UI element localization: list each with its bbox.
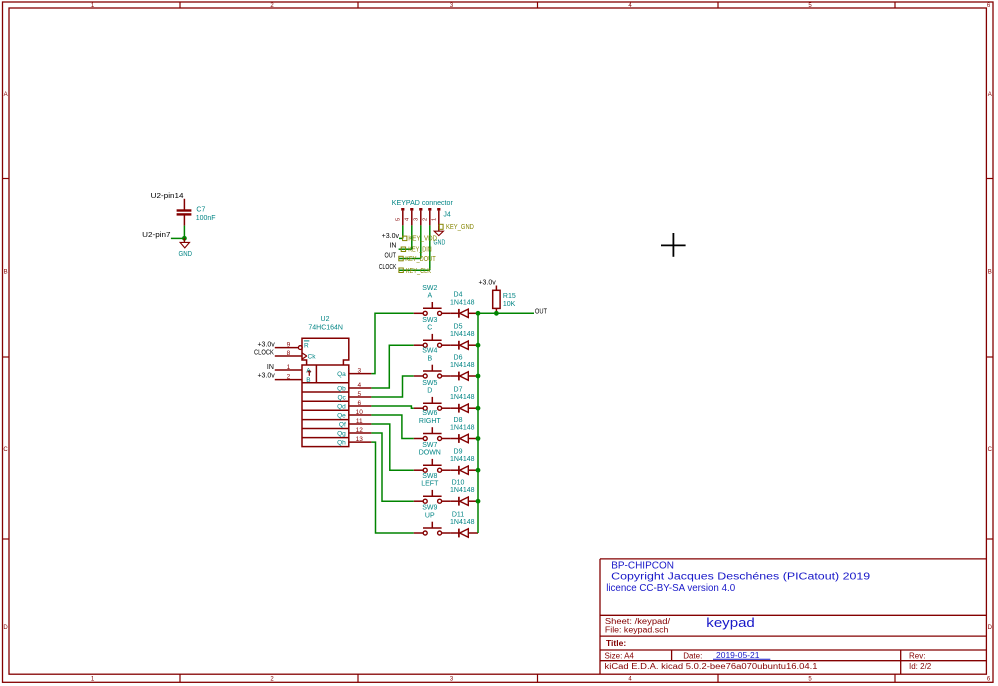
wire Qb to switch row 2 [371, 345, 413, 388]
SW7 reference [422, 442, 437, 449]
svg-text:C: C [988, 447, 993, 453]
svg-text:KEY_DOUT: KEY_DOUT [405, 256, 436, 263]
svg-text:+3.0v: +3.0v [257, 373, 275, 380]
svg-text:Qa: Qa [337, 371, 346, 378]
D6 value 1N4148 [450, 362, 475, 369]
svg-text:BP-CHIPCON: BP-CHIPCON [611, 561, 674, 572]
svg-text:9: 9 [287, 341, 291, 348]
switch SW2 (A) [414, 302, 450, 315]
wire Qh to switch row 8 [371, 442, 413, 533]
title block comment copyright [611, 572, 871, 583]
U2 pin 12 (Qg output) [337, 427, 371, 438]
U2 pin 1 (A input) [275, 364, 311, 374]
svg-text:D8: D8 [454, 417, 463, 424]
wire CLOCK to J4 pin2 [399, 269, 430, 271]
junction at C7 ground node [182, 236, 187, 241]
svg-text:1: 1 [432, 218, 438, 221]
D8 reference [454, 417, 463, 424]
svg-text:1N4148: 1N4148 [450, 331, 475, 338]
title block file name [605, 625, 669, 634]
title block date value [713, 650, 770, 660]
svg-text:1N4148: 1N4148 [450, 425, 475, 432]
svg-text:6: 6 [987, 3, 991, 9]
U2 pin 8 (Ck clock) [275, 350, 316, 360]
junction on OUT bus row 5 [476, 436, 481, 441]
svg-text:CLOCK: CLOCK [254, 350, 274, 357]
svg-text:B: B [427, 355, 432, 362]
diode D9 1N4148 [450, 466, 478, 475]
svg-text:A: A [427, 293, 432, 300]
svg-text:3: 3 [357, 368, 361, 375]
U2 pin 10 (Qe output) [337, 409, 371, 420]
SW2 value A [427, 293, 432, 300]
ground GND at J4 [434, 231, 446, 246]
svg-text:11: 11 [356, 418, 363, 425]
svg-text:D10: D10 [452, 480, 465, 487]
wire Qa to switch row 1 [371, 313, 413, 373]
title block rev label [909, 651, 925, 660]
wire Qg to switch row 7 [371, 433, 413, 501]
svg-text:OUT: OUT [385, 253, 397, 260]
title block comment BP-CHIPCON [611, 561, 674, 572]
svg-text:KEY_GND: KEY_GND [446, 224, 474, 231]
switch SW6 (RIGHT) [414, 427, 450, 440]
diode D7 1N4148 [450, 404, 478, 413]
label +3.0v at U2 pin2 [257, 373, 275, 380]
label CLOCK at J4 [379, 264, 397, 271]
wire Qd to switch row 4 [371, 406, 413, 408]
wire U2-pin7 to junction [171, 237, 185, 239]
svg-text:U2-pin14: U2-pin14 [151, 193, 184, 200]
wire Qf to switch row 6 [371, 424, 413, 470]
D10 reference [452, 480, 465, 487]
svg-text:4: 4 [357, 382, 361, 389]
wire J4 pin4 to KEY_DIN node [411, 225, 413, 249]
svg-text:SW7: SW7 [422, 442, 437, 449]
switch SW4 (B) [414, 365, 450, 378]
junction on OUT bus row 2 [476, 343, 481, 348]
resistor R15 [493, 286, 500, 314]
svg-text:1: 1 [287, 364, 291, 371]
U2 pin 9 (R reset) [275, 341, 310, 350]
R15 value 10K [503, 301, 516, 308]
SW3 reference [422, 317, 437, 324]
connector J4 pin 4 [405, 208, 412, 225]
capacitor C7 [177, 211, 192, 226]
svg-text:Qd: Qd [337, 404, 346, 411]
U2 value 74HC164N [308, 325, 343, 332]
U2 pin 6 (Qd output) [337, 400, 371, 411]
SW3 value C [427, 325, 432, 332]
svg-text:D7: D7 [454, 387, 463, 394]
title block size [605, 651, 635, 660]
SW8 value LEFT [421, 481, 439, 488]
svg-text:C7: C7 [196, 206, 205, 213]
junction at R15 bottom [494, 311, 499, 316]
svg-text:Qe: Qe [337, 413, 346, 420]
svg-text:Qb: Qb [337, 386, 346, 393]
svg-text:KEY_DIN: KEY_DIN [408, 247, 431, 254]
svg-text:keypad: keypad [706, 615, 755, 630]
title block kicad version [605, 662, 819, 671]
label CLOCK at U2 pin8 [254, 350, 274, 357]
D11 value 1N4148 [450, 519, 475, 526]
svg-text:1N4148: 1N4148 [450, 394, 475, 401]
svg-text:74HC164N: 74HC164N [308, 325, 343, 332]
label OUT [535, 309, 548, 316]
svg-text:D: D [3, 625, 8, 631]
shift register U2 74HC164N body [302, 338, 349, 446]
svg-text:A: A [4, 92, 8, 98]
svg-text:B: B [988, 270, 992, 276]
diode D5 1N4148 [450, 341, 478, 350]
svg-text:KEY_CLK: KEY_CLK [406, 268, 431, 275]
connector J4 pin 3 [414, 208, 421, 225]
D8 value 1N4148 [450, 425, 475, 432]
SW6 value RIGHT [419, 418, 442, 425]
svg-text:8: 8 [287, 350, 291, 357]
connector J4 reference [443, 212, 451, 219]
D4 value 1N4148 [450, 299, 475, 306]
junction on OUT bus row 1 [476, 311, 481, 316]
svg-text:Qc: Qc [337, 395, 346, 402]
SW2 reference [422, 285, 437, 292]
svg-text:U2: U2 [321, 316, 330, 323]
svg-text:A: A [988, 92, 992, 98]
svg-text:kiCad E.D.A. kicad 5.0.2-bee7: kiCad E.D.A. kicad 5.0.2-bee76a070ubuntu… [605, 662, 819, 671]
svg-text:licence CC-BY-SA version 4.0: licence CC-BY-SA version 4.0 [606, 583, 735, 594]
svg-text:SW2: SW2 [422, 285, 437, 292]
svg-text:D5: D5 [454, 324, 463, 331]
D6 reference [454, 354, 463, 361]
C7 reference [196, 206, 205, 213]
title block date label [683, 651, 702, 660]
svg-text:SW5: SW5 [422, 380, 437, 387]
svg-text:+3.0v: +3.0v [382, 233, 400, 240]
junction on OUT bus row 6 [476, 468, 481, 473]
svg-text:1N4148: 1N4148 [450, 299, 475, 306]
svg-text:2019-05-21: 2019-05-21 [716, 650, 760, 660]
connector J4 pin 1 [432, 208, 439, 225]
svg-text:A: A [306, 367, 311, 374]
svg-text:D11: D11 [452, 511, 464, 518]
svg-text:1N4148: 1N4148 [450, 456, 475, 463]
diode D8 1N4148 [450, 434, 478, 443]
svg-text:KEY_VDD: KEY_VDD [408, 236, 437, 243]
svg-text:File: keypad.sch: File: keypad.sch [605, 625, 669, 634]
SW7 value DOWN [419, 450, 441, 457]
svg-text:2: 2 [287, 374, 291, 381]
SW5 reference [422, 380, 437, 387]
svg-text:UP: UP [425, 512, 435, 519]
svg-text:SW9: SW9 [422, 505, 437, 512]
title block comment licence [606, 583, 735, 594]
svg-text:LEFT: LEFT [421, 481, 439, 488]
svg-text:SW3: SW3 [422, 317, 437, 324]
diode D11 1N4148 [450, 529, 478, 538]
svg-text:10K: 10K [503, 301, 516, 308]
svg-text:SW4: SW4 [422, 348, 437, 355]
hierarchical label KEY_VDD [403, 236, 437, 243]
D5 reference [454, 324, 463, 331]
D4 reference [454, 292, 463, 299]
svg-text:GND: GND [179, 251, 193, 258]
ground GND at C7 [179, 238, 193, 258]
svg-text:Ck: Ck [308, 353, 317, 360]
wire J4 pin3 to KEY_DOUT node [420, 225, 422, 258]
SW9 reference [422, 505, 437, 512]
wire U2-pin14 to C7 [183, 199, 185, 210]
diode D10 1N4148 [450, 497, 478, 506]
wire Qe to switch row 5 [371, 415, 413, 439]
svg-text:B: B [4, 270, 8, 276]
label +3.0v at U2 pin9 [257, 341, 275, 348]
junction on OUT bus row 7 [476, 499, 481, 504]
label U2-pin14 [151, 193, 184, 200]
svg-text:2: 2 [423, 218, 429, 221]
svg-text:SW8: SW8 [422, 473, 437, 480]
junction on OUT bus row 3 [476, 374, 481, 379]
label +3.0v at R15 [478, 280, 496, 287]
D10 value 1N4148 [450, 487, 475, 494]
svg-text:IN: IN [267, 364, 274, 371]
connector J4 pin 5 [396, 208, 403, 225]
wire +3.0v to J4 pin5 [399, 237, 403, 239]
svg-text:OUT: OUT [535, 309, 548, 316]
svg-text:10: 10 [356, 409, 364, 416]
SW8 reference [422, 473, 437, 480]
svg-text:+3.0v: +3.0v [478, 280, 496, 287]
svg-text:Id: 2/2: Id: 2/2 [909, 662, 932, 671]
svg-text:IN: IN [389, 243, 396, 250]
svg-text:SW6: SW6 [422, 410, 437, 417]
U2 reference [321, 316, 330, 323]
C7 value 100nF [196, 215, 216, 222]
D5 value 1N4148 [450, 331, 475, 338]
svg-text:DOWN: DOWN [419, 450, 441, 457]
svg-text:J4: J4 [443, 212, 451, 219]
svg-text:13: 13 [356, 436, 364, 443]
switch SW9 (UP) [414, 522, 450, 535]
svg-text:D: D [988, 625, 993, 631]
D7 value 1N4148 [450, 394, 475, 401]
U2 pin 5 (Qc output) [337, 391, 371, 402]
D7 reference [454, 387, 463, 394]
label U2-pin7 [142, 232, 170, 239]
svg-text:5: 5 [396, 218, 402, 221]
title block frame [600, 559, 986, 674]
title block id [909, 662, 932, 671]
connector J4 pin 2 [423, 208, 430, 225]
wire OUT bus to resistor and OUT label [478, 312, 534, 314]
svg-text:Qf: Qf [339, 422, 346, 429]
svg-text:B: B [306, 377, 310, 384]
U2 pin 11 (Qf output) [339, 418, 371, 429]
wire J4 pin1 to ground [438, 225, 440, 231]
wire OUT to J4 pin3 [399, 258, 421, 260]
hierarchical label KEY_CLK [399, 268, 431, 275]
svg-text:U2-pin7: U2-pin7 [142, 232, 170, 239]
SW5 value D [427, 388, 432, 395]
label OUT at J4 [385, 253, 397, 260]
svg-text:Date:: Date: [683, 651, 702, 660]
D9 reference [454, 449, 463, 456]
U2 pin 2 (B input) [275, 374, 311, 384]
U2 pin 4 (Qb output) [337, 382, 371, 393]
junction on OUT bus row 4 [476, 406, 481, 411]
wire IN to J4 pin4 [399, 248, 412, 250]
label +3.0v at J4 [382, 233, 400, 240]
svg-text:Title:: Title: [606, 638, 626, 648]
svg-text:5: 5 [357, 391, 361, 398]
svg-text:1N4148: 1N4148 [450, 362, 475, 369]
svg-text:+3.0v: +3.0v [257, 341, 275, 348]
svg-text:CLOCK: CLOCK [379, 264, 397, 271]
svg-text:Qg: Qg [337, 431, 346, 438]
D9 value 1N4148 [450, 456, 475, 463]
R15 reference [503, 293, 516, 300]
switch SW7 (DOWN) [414, 459, 450, 472]
label IN at U2 pin1 [267, 364, 274, 371]
SW6 reference [422, 410, 437, 417]
svg-text:1N4148: 1N4148 [450, 519, 475, 526]
wire J4 pin5 to KEY_VDD node [402, 225, 404, 238]
label IN at J4 [389, 243, 396, 250]
wire J4 pin2 to KEY_CLK node [429, 225, 431, 270]
title block sheet name keypad [706, 615, 755, 630]
title block Title label [606, 638, 626, 648]
switch SW3 (C) [414, 334, 450, 347]
svg-text:3: 3 [414, 218, 420, 221]
svg-text:Copyright Jacques Deschénes (P: Copyright Jacques Deschénes (PICatout) 2… [611, 572, 871, 583]
svg-text:D6: D6 [454, 354, 463, 361]
svg-text:C: C [3, 447, 8, 453]
cursor crosshair [661, 233, 686, 257]
svg-text:12: 12 [356, 427, 364, 434]
svg-text:Rev:: Rev: [909, 651, 925, 660]
svg-text:100nF: 100nF [196, 215, 216, 222]
diode D6 1N4148 [450, 372, 478, 381]
svg-text:D4: D4 [454, 292, 463, 299]
svg-text:4: 4 [405, 217, 411, 221]
text note KEYPAD connector [392, 200, 454, 207]
svg-text:D: D [427, 388, 432, 395]
diode D4 1N4148 [450, 309, 478, 318]
U2 pin 13 (Qh output) [337, 436, 371, 447]
svg-text:Qh: Qh [337, 440, 346, 447]
switch SW8 (LEFT) [414, 490, 450, 503]
wire OUT bus vertical [477, 313, 479, 533]
hierarchical label KEY_DOUT [399, 256, 436, 263]
switch SW5 (D) [414, 397, 450, 410]
svg-text:6: 6 [357, 400, 361, 407]
svg-text:Size: A4: Size: A4 [605, 651, 635, 660]
D11 reference [452, 511, 464, 518]
svg-text:1N4148: 1N4148 [450, 487, 475, 494]
SW9 value UP [425, 512, 435, 519]
svg-text:R15: R15 [503, 293, 516, 300]
wire Qc to switch row 3 [371, 376, 413, 397]
svg-text:C: C [427, 325, 432, 332]
U2 pin 3 (Qa output) [337, 368, 371, 379]
svg-text:D9: D9 [454, 449, 463, 456]
SW4 value B [427, 355, 432, 362]
title block sheet path [605, 617, 671, 626]
hierarchical label KEY_DIN [401, 247, 431, 254]
SW4 reference [422, 348, 437, 355]
svg-text:RIGHT: RIGHT [419, 418, 442, 425]
hierarchical label KEY_GND [439, 224, 474, 231]
svg-text:KEYPAD connector: KEYPAD connector [392, 200, 454, 207]
wire C7 to ground junction [183, 226, 185, 239]
svg-text:R: R [304, 342, 309, 349]
